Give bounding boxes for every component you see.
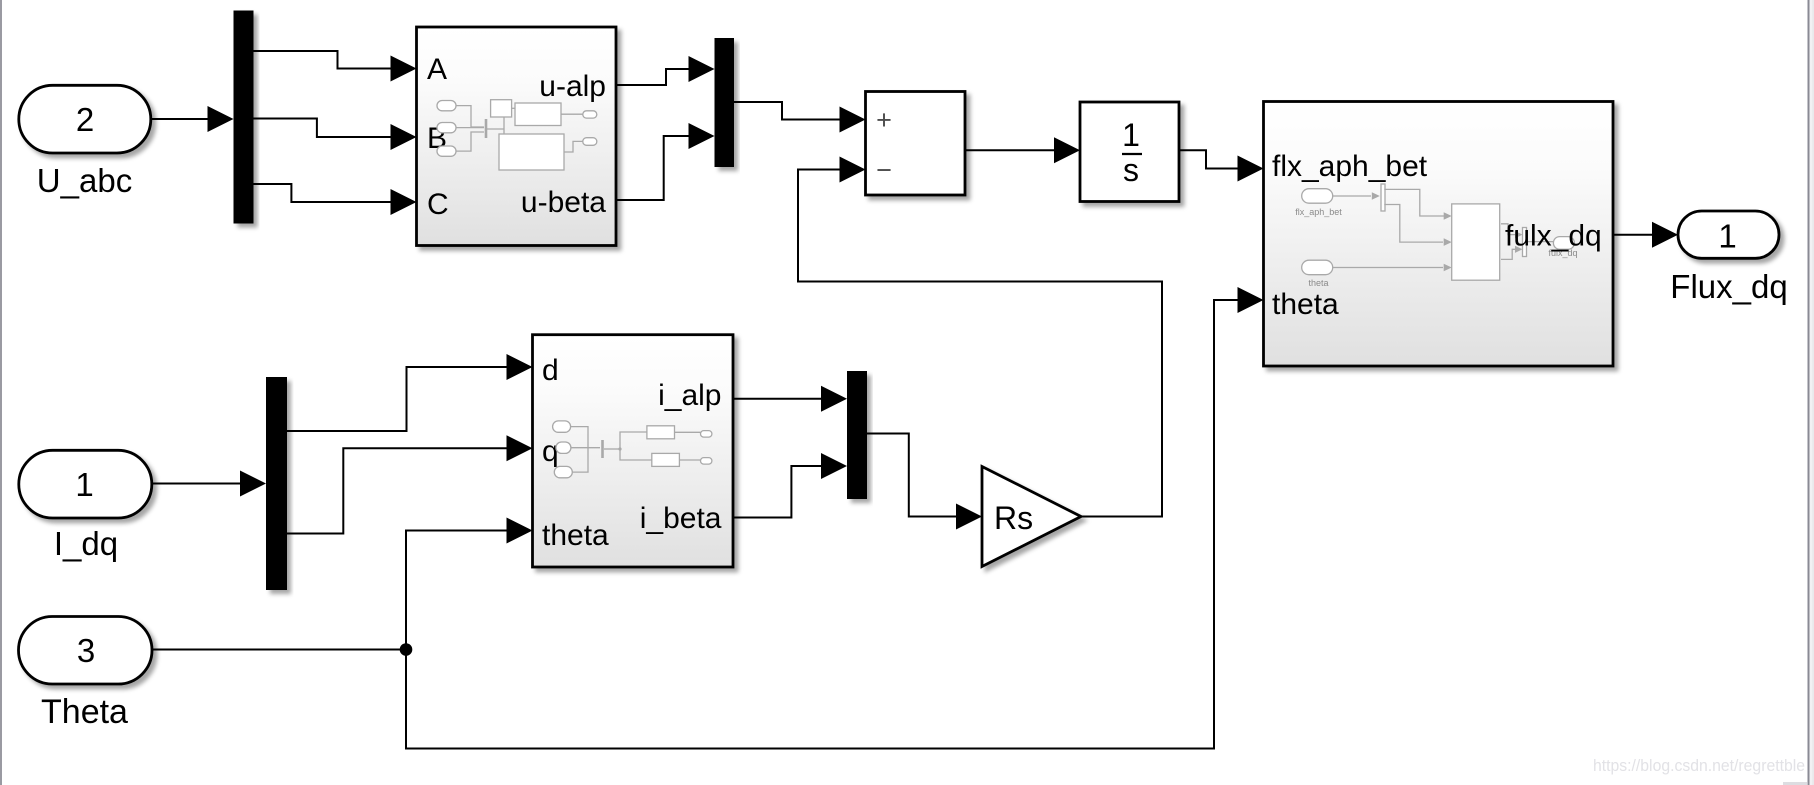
- arrowhead B: [391, 124, 417, 150]
- arrowhead outport: [1652, 222, 1678, 248]
- arrowhead mux3: [240, 471, 266, 497]
- arrowhead mux2 in1: [689, 56, 715, 82]
- wire junction down around to big block theta: [406, 300, 1242, 749]
- wire i_beta to mux4: [733, 466, 825, 518]
- bottom right corner mark: [1783, 782, 1807, 785]
- svg-text:i_beta: i_beta: [640, 502, 722, 535]
- arrowhead sum plus: [840, 107, 866, 133]
- wire Theta to junction: [152, 649, 407, 651]
- big subsystem flux block: [1264, 102, 1614, 367]
- svg-text:theta: theta: [1272, 288, 1339, 321]
- left window border line: [0, 0, 2, 785]
- gain Rs triangle: [982, 467, 1081, 567]
- arrowhead flx_aph_bet: [1238, 156, 1264, 182]
- svg-text:C: C: [427, 188, 449, 221]
- mux2 bar: [715, 38, 735, 167]
- arrowhead mux2 in2: [689, 123, 715, 149]
- arrowhead q: [507, 435, 533, 461]
- right scrollbar border: [1808, 0, 1810, 785]
- sum block: [866, 92, 966, 196]
- wire mux1 out2 to B: [252, 119, 395, 138]
- svg-text:fulx_dq: fulx_dq: [1505, 220, 1602, 253]
- arrowhead theta block2: [507, 518, 533, 544]
- mux4 bar: [847, 371, 867, 499]
- arrowhead A: [391, 56, 417, 82]
- mux3 bar: [266, 377, 287, 590]
- svg-text:flx_aph_bet: flx_aph_bet: [1272, 150, 1428, 183]
- mux1 bar: [234, 11, 254, 224]
- wire junction up to theta of block2: [406, 531, 510, 650]
- inport 1 I_dq oval: [19, 450, 152, 518]
- svg-text:+: +: [876, 105, 892, 135]
- inport 2 U_abc oval: [19, 85, 151, 153]
- wire mux1 out3 to C: [252, 184, 395, 202]
- svg-text:Flux_dq: Flux_dq: [1670, 268, 1787, 305]
- arrowhead d: [507, 354, 533, 380]
- svg-text:2: 2: [76, 101, 94, 138]
- svg-text:1: 1: [1122, 117, 1140, 153]
- arrowhead C: [391, 189, 417, 215]
- wire i_alp to mux4: [733, 398, 825, 400]
- wire u-beta to mux2: [616, 136, 692, 200]
- svg-text:u-alp: u-alp: [539, 70, 606, 103]
- wire u-alp to mux2: [616, 69, 692, 85]
- subsystem abc2alphabeta block: [417, 27, 617, 246]
- arrowhead integrator: [1054, 137, 1080, 163]
- arrowhead mux4 in2: [821, 453, 847, 479]
- svg-text:theta: theta: [542, 519, 609, 552]
- arrowhead into mux1: [208, 106, 234, 132]
- svg-text:3: 3: [77, 632, 95, 669]
- wire Rs to sum minus: [798, 170, 1162, 517]
- arrowhead mux4 in1: [821, 386, 847, 412]
- wire I_dq to mux3: [151, 483, 244, 485]
- arrowhead theta big block: [1238, 287, 1264, 313]
- outport 1 Flux_dq oval: [1678, 211, 1779, 258]
- arrowhead Rs: [956, 504, 982, 530]
- svg-text:1: 1: [1718, 218, 1736, 255]
- svg-text:u-beta: u-beta: [521, 186, 606, 219]
- wire mux2 to sum plus: [734, 102, 843, 120]
- junction dot: [400, 643, 413, 656]
- svg-text:s: s: [1123, 152, 1139, 188]
- svg-text:U_abc: U_abc: [37, 162, 132, 199]
- svg-text:A: A: [427, 53, 447, 86]
- big block inner thumbnail: [1302, 184, 1575, 280]
- svg-text:flx_aph_bet: flx_aph_bet: [1295, 207, 1342, 217]
- wire mux3 out1 to d: [287, 367, 510, 431]
- block1 inner thumbnail: [437, 100, 597, 170]
- svg-text:−: −: [876, 155, 892, 185]
- svg-text:i_alp: i_alp: [658, 379, 721, 412]
- svg-text:Rs: Rs: [994, 500, 1033, 536]
- right scrollbar track: [1809, 0, 1814, 785]
- svg-text:d: d: [542, 354, 559, 387]
- svg-text:q: q: [542, 435, 559, 468]
- wire U_abc to mux1: [150, 118, 215, 120]
- wire mux4 to Rs gain: [867, 434, 960, 517]
- svg-text:https://blog.csdn.net/regrettb: https://blog.csdn.net/regrettble: [1593, 756, 1805, 775]
- integrator block: [1080, 102, 1179, 202]
- svg-text:theta: theta: [1308, 278, 1328, 288]
- arrowhead sum minus: [840, 157, 866, 183]
- inport 3 Theta oval: [19, 617, 153, 685]
- wire sum to integrator: [965, 149, 1058, 151]
- svg-text:Theta: Theta: [41, 693, 128, 731]
- wire integrator to big block: [1179, 150, 1241, 168]
- svg-text:1: 1: [75, 466, 93, 503]
- wire big block to outport: [1613, 234, 1656, 236]
- wire mux3 out2 to q: [287, 448, 510, 533]
- svg-text:I_dq: I_dq: [54, 525, 118, 562]
- subsystem dq2alphabeta block: [533, 335, 734, 567]
- integrator fraction line: [1122, 153, 1142, 155]
- block2 inner thumbnail: [553, 421, 712, 478]
- wire mux1 out1 to A: [252, 51, 395, 69]
